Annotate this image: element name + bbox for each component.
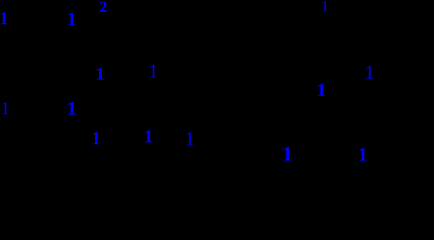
- pin/map number "1" — right, x318 y84, bold: [318, 84, 325, 96]
- pin/map number "1" — mid row, x97 y68, bold: [97, 68, 105, 80]
- pin/map number "1" — lower row, x186 y132, regular: [186, 132, 193, 145]
- black canvas background: [0, 0, 434, 174]
- pin/map number "1" — top-left, x1 y12, bold: [1, 12, 7, 24]
- pin/map number "2" — superscript top, x100 y2, bold: [100, 2, 107, 12]
- pin/map number "1" — superscript top-right, x322 y1, regular: [322, 1, 328, 11]
- pin/map number "1" — bottom, x360 y148, bold: [360, 148, 367, 161]
- pin/map number "1" — mid-right, x366 y66, regular: [366, 66, 373, 79]
- pin/map number "1" — bottom, x284 y147, bold: [284, 147, 291, 160]
- pin/map number "1" — x68 y102, bold: [68, 102, 76, 115]
- pin/map number "1" — lower row, x93 y132, bold: [93, 132, 99, 144]
- pin/map number "1" — lower row, x145 y130, bold: [145, 130, 152, 142]
- pin/map number "1" — mid row, x150 y64, regular: [150, 65, 157, 78]
- pin/map number "1" — top row, x68 y13, bold: [68, 13, 75, 25]
- pin/map number "1" — left, x2 y102, regular: [2, 102, 8, 114]
